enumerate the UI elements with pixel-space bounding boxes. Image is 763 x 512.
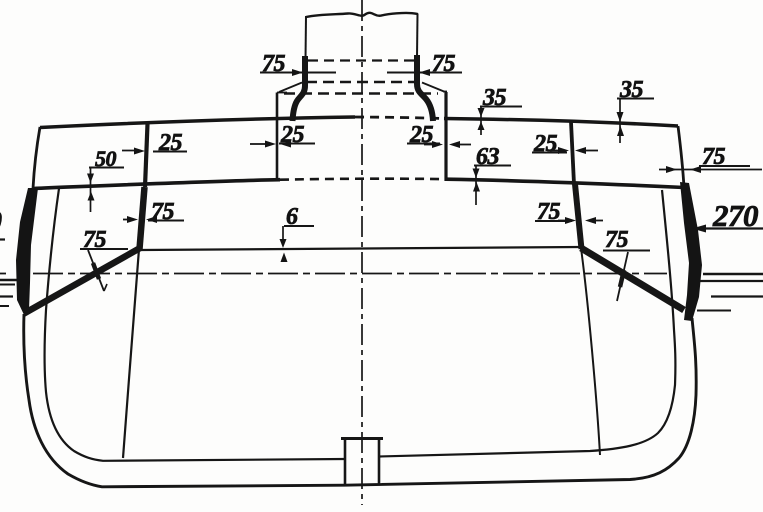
thick diagonal right xyxy=(581,248,684,310)
dim 35 left xyxy=(478,85,523,135)
frame right lower thin xyxy=(581,248,600,455)
dim 63 xyxy=(473,144,512,205)
funnel dashed row C xyxy=(284,92,438,94)
svg-text:75: 75 xyxy=(605,227,629,253)
funnel right flare thick xyxy=(417,55,433,121)
frame left mid thick xyxy=(140,187,145,249)
frame right mid thick xyxy=(575,184,582,249)
right edge stub lines xyxy=(703,273,763,275)
partial 0 at left edge xyxy=(0,205,5,240)
sheer side right xyxy=(678,126,684,188)
frame left lower thin xyxy=(123,249,139,458)
hood diagonal right xyxy=(422,83,444,92)
deck line 1 solid left xyxy=(40,117,355,128)
funnel dashed row A xyxy=(308,59,414,61)
frame left upper xyxy=(145,124,148,187)
dim 75 funnel-left xyxy=(260,51,336,77)
thick side band right xyxy=(680,182,702,321)
dim 25 house-right xyxy=(407,122,471,148)
svg-text:0: 0 xyxy=(0,205,2,238)
dim 270 xyxy=(692,198,763,233)
hood ledge right xyxy=(443,91,447,93)
hull inner left xyxy=(45,189,346,461)
dim 75 funnel-right xyxy=(387,51,462,77)
deckhouse left wall xyxy=(276,93,279,181)
funnel left side xyxy=(305,16,308,60)
deckhouse right wall xyxy=(444,92,447,181)
mid horizontal line (6) xyxy=(141,247,581,250)
deck line 1 dashed center xyxy=(355,117,444,119)
hull outer left xyxy=(24,314,345,487)
funnel right side xyxy=(416,14,419,58)
waterline xyxy=(0,273,6,275)
dim 35 right xyxy=(617,77,655,143)
hood diagonal left xyxy=(279,83,302,93)
keel box top xyxy=(341,437,383,440)
dim 75 left-mid xyxy=(123,199,184,225)
deck line 2 solid left xyxy=(33,180,280,189)
dim 75 right-mid xyxy=(535,199,603,225)
hull inner right xyxy=(379,190,675,457)
centerline xyxy=(361,0,363,505)
dim 75 right-upper xyxy=(659,144,762,173)
funnel left flare thick xyxy=(293,56,306,121)
dim 50 xyxy=(87,146,124,212)
funnel dashed row B xyxy=(306,81,417,83)
deck line 2 dashed center xyxy=(280,179,446,180)
thick diagonal left xyxy=(24,248,141,314)
dim 75 left-diagonal xyxy=(80,227,128,291)
hood ledge left xyxy=(277,92,287,94)
keel box right side xyxy=(378,439,381,484)
dim 75 right-diagonal xyxy=(603,227,650,301)
deck line 2 solid right xyxy=(446,179,684,187)
keel box left side xyxy=(344,439,347,486)
hull outer bottom right xyxy=(345,318,696,485)
thick side band left xyxy=(16,188,38,317)
sheer side left xyxy=(33,127,40,189)
funnel top break xyxy=(306,13,418,17)
dim 25 house-left xyxy=(250,122,315,148)
deck line 1 solid right xyxy=(444,119,678,127)
dim 6 center xyxy=(280,204,315,262)
dim 25 mid-right xyxy=(532,131,598,157)
dim 25 far-left xyxy=(122,130,187,156)
frame right upper xyxy=(571,122,574,184)
left edge stub lines xyxy=(0,279,17,281)
